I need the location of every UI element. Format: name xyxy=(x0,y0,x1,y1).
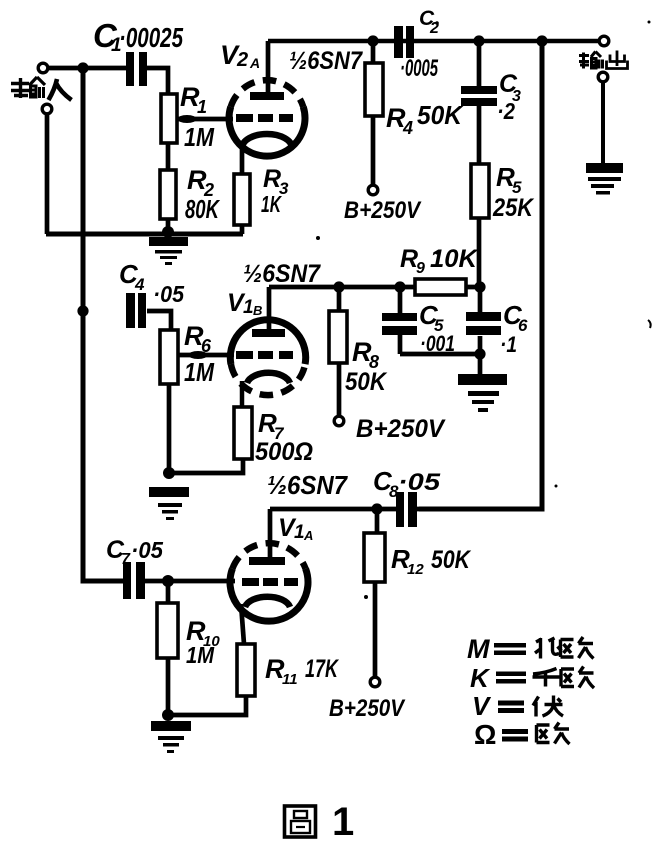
wire R6 down xyxy=(167,384,172,473)
wire R7 bottom xyxy=(169,459,243,473)
wire R4 leads xyxy=(371,41,376,184)
svg-text:1: 1 xyxy=(243,297,254,318)
svg-text:4: 4 xyxy=(134,275,145,294)
wire feedback right vertical xyxy=(419,41,542,509)
legend fu glyph xyxy=(533,696,563,717)
wire output terminal2 to ground xyxy=(601,83,605,163)
caption figure glyph (tu) xyxy=(285,806,316,837)
svg-text:K: K xyxy=(470,663,491,693)
svg-text:1: 1 xyxy=(332,800,354,844)
wire C4 to R6 xyxy=(147,311,171,330)
capacitor C8 xyxy=(396,492,404,527)
svg-text:M: M xyxy=(467,634,490,664)
svg-text:B+250V: B+250V xyxy=(356,415,446,443)
terminal B+ stage2 xyxy=(334,416,344,426)
node C4 branch xyxy=(77,305,88,316)
triode V2A envelope xyxy=(229,80,305,156)
svg-text:10K: 10K xyxy=(430,245,479,273)
label input (shu ru glyphs) xyxy=(11,77,72,100)
svg-text:1: 1 xyxy=(197,97,207,117)
triode V1A plate xyxy=(249,557,285,565)
ground stage1 xyxy=(149,237,188,265)
wire plate V2A up xyxy=(266,41,271,96)
wire grid V2A xyxy=(177,117,233,122)
resistor R7 xyxy=(234,407,252,459)
capacitor C6 xyxy=(466,312,501,321)
svg-text:50K: 50K xyxy=(431,546,472,574)
svg-text:Ω: Ω xyxy=(474,719,496,750)
svg-text:4: 4 xyxy=(402,118,413,138)
svg-text:·2: ·2 xyxy=(497,98,515,124)
svg-text:80K: 80K xyxy=(185,194,221,224)
resistor R3 xyxy=(234,174,250,225)
wire C5 leads xyxy=(398,287,403,354)
terminal B+ stage3 xyxy=(370,677,380,687)
terminal input 1 xyxy=(38,63,48,73)
wire plate V1A up xyxy=(268,509,273,560)
svg-text:9: 9 xyxy=(416,260,425,277)
triode V1A cathode xyxy=(245,597,290,607)
triode V1B envelope xyxy=(230,320,305,395)
resistor R2 xyxy=(160,170,176,219)
wire R10 down xyxy=(166,658,171,715)
wire input terminal2 down xyxy=(45,115,50,234)
svg-text:B+250V: B+250V xyxy=(344,197,422,224)
svg-text:1: 1 xyxy=(294,522,305,543)
resistor R10 xyxy=(157,603,178,658)
node C7 grid junction xyxy=(162,575,174,587)
resistor R11 xyxy=(237,644,255,696)
node stage1 ground junction xyxy=(162,226,174,238)
node input junction xyxy=(77,62,88,73)
svg-text:A: A xyxy=(303,528,313,543)
resistor R6 xyxy=(160,330,178,384)
wire R5 down to node xyxy=(477,218,482,287)
terminal input 2 xyxy=(42,104,52,114)
ground stage2 xyxy=(149,487,189,520)
node C5/R9 left xyxy=(394,281,405,292)
triode V2A grid xyxy=(236,114,293,122)
svg-text:B: B xyxy=(253,303,262,318)
wire plate bus stage3 xyxy=(270,507,542,512)
wire R1-R2 xyxy=(166,143,171,170)
wire R10 top xyxy=(166,581,171,603)
wire cathode V1B xyxy=(240,381,245,407)
label output (shu chu glyphs) xyxy=(579,51,628,69)
ground output xyxy=(586,163,623,195)
node C6 bottom xyxy=(474,348,485,359)
svg-text:·05: ·05 xyxy=(398,469,441,496)
svg-text:7: 7 xyxy=(121,551,131,568)
svg-text:6: 6 xyxy=(518,316,528,335)
ground C6 xyxy=(458,374,507,412)
triode V2A cathode xyxy=(242,134,292,148)
svg-text:17K: 17K xyxy=(305,655,339,683)
wire plate bus stage2 xyxy=(269,285,480,290)
node stage3 ground junction xyxy=(162,709,174,721)
resistor R12 xyxy=(364,533,385,582)
svg-text:V: V xyxy=(472,691,492,721)
wire cathode V2A xyxy=(240,146,245,174)
wire R8 down xyxy=(337,363,342,415)
svg-text:500Ω: 500Ω xyxy=(255,438,313,466)
svg-text:1M: 1M xyxy=(186,642,215,668)
svg-text:·0005: ·0005 xyxy=(400,55,438,82)
wire C5-C6 bottom xyxy=(400,352,480,357)
triode V1B plate xyxy=(252,329,285,337)
legend zhao glyph xyxy=(535,638,562,659)
wire R12 leads xyxy=(375,509,377,676)
wire left long vertical xyxy=(83,68,123,581)
wire R8 top xyxy=(337,287,342,311)
triode V1A grid xyxy=(242,578,298,586)
svg-text:½6SN7: ½6SN7 xyxy=(289,47,363,75)
svg-text:50K: 50K xyxy=(345,368,388,396)
node feedback top xyxy=(536,35,547,46)
arrow grid V2A xyxy=(178,115,197,123)
terminal B+ stage1 xyxy=(368,185,378,195)
legend qian glyph xyxy=(533,669,560,687)
wire R2 to ground bus xyxy=(166,219,171,232)
wire input top xyxy=(49,66,126,71)
svg-text:½6SN7: ½6SN7 xyxy=(267,470,348,500)
resistor R1 xyxy=(161,94,177,143)
wire stage1 ground bus xyxy=(46,232,243,237)
capacitor C5 xyxy=(382,313,417,321)
legend ou glyph 2 xyxy=(561,667,594,689)
svg-text:2: 2 xyxy=(236,49,248,71)
capacitor C3 xyxy=(461,86,497,94)
capacitor C1 xyxy=(126,52,134,86)
triode V1A envelope xyxy=(230,543,308,621)
wire R11 bottom xyxy=(168,696,246,715)
svg-text:·00025: ·00025 xyxy=(119,22,183,53)
resistor R9 xyxy=(415,279,466,295)
terminal output 2 xyxy=(598,72,608,82)
resistor R5 xyxy=(471,164,489,218)
capacitor C7 xyxy=(123,562,131,599)
svg-text:25K: 25K xyxy=(492,194,535,222)
wire grid V1A xyxy=(168,579,235,584)
terminal output 1 xyxy=(599,36,609,46)
svg-text:1M: 1M xyxy=(184,122,215,152)
svg-text:B+250V: B+250V xyxy=(329,695,406,722)
svg-text:6: 6 xyxy=(201,336,212,356)
wire top bus xyxy=(268,39,598,44)
node C3 top xyxy=(473,35,484,46)
svg-text:A: A xyxy=(249,55,260,71)
legend ou glyph 3 xyxy=(537,723,570,745)
capacitor C4 xyxy=(126,293,135,328)
svg-text:1K: 1K xyxy=(261,191,282,217)
resistor R4 xyxy=(365,63,383,116)
wire C7 to grid junction xyxy=(145,579,168,584)
capacitor C2 xyxy=(394,26,403,58)
wire C3 to R5 xyxy=(477,106,482,164)
svg-text:·05: ·05 xyxy=(153,281,185,307)
svg-text:50K: 50K xyxy=(417,100,464,130)
svg-text:11: 11 xyxy=(282,671,298,688)
ground stage3 xyxy=(151,721,191,753)
node stage2 ground junction xyxy=(163,467,175,479)
wire C6 ground lead xyxy=(478,354,483,374)
node R8 top xyxy=(333,281,344,292)
node R9 right/C6 xyxy=(474,281,485,292)
wire grid V1B xyxy=(178,353,234,358)
node R12 top xyxy=(371,503,382,514)
wire cathode V1A xyxy=(241,604,244,644)
wire C1 to R1 xyxy=(147,68,168,94)
wire R3 bottom xyxy=(240,225,245,234)
legend ou glyph 1 xyxy=(561,637,594,659)
wire plate V1B up xyxy=(267,287,272,330)
triode V1B cathode xyxy=(247,373,290,383)
speck marks xyxy=(316,21,651,600)
wire C3 top lead xyxy=(477,41,482,87)
svg-text:·05: ·05 xyxy=(131,537,164,563)
resistor R8 xyxy=(329,311,347,363)
svg-text:·001: ·001 xyxy=(420,331,455,356)
arrow grid V1B xyxy=(189,351,208,359)
svg-text:12: 12 xyxy=(407,561,424,578)
svg-text:½6SN7: ½6SN7 xyxy=(243,260,321,288)
svg-text:1M: 1M xyxy=(184,357,215,387)
wire C6 leads xyxy=(478,287,483,354)
node R4 top xyxy=(367,35,378,46)
triode V2A plate xyxy=(250,92,284,100)
triode V1B grid xyxy=(236,351,293,359)
svg-text:·1: ·1 xyxy=(500,332,517,357)
